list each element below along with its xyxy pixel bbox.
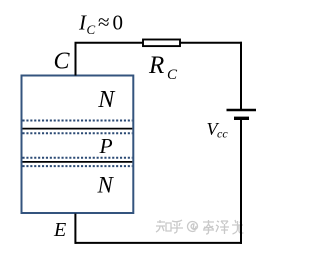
泽 — [216, 221, 229, 234]
wire right vertical lower — [240, 120, 242, 244]
svg-text:C: C — [54, 48, 71, 74]
watermark 知乎 @李泽光 — [156, 220, 244, 234]
svg-text:R: R — [148, 52, 164, 79]
wire emitter vertical — [74, 214, 76, 244]
depletion edge dotted line (C-B lower) — [23, 132, 133, 134]
svg-text:C: C — [167, 67, 178, 83]
svg-text:≈: ≈ — [98, 10, 110, 34]
svg-text:E: E — [53, 219, 66, 241]
svg-text:cc: cc — [217, 127, 228, 141]
wire right vertical upper — [240, 42, 242, 109]
depletion edge dotted line (B-E lower) — [23, 165, 133, 167]
@ — [188, 221, 198, 231]
battery short plate — [234, 117, 249, 120]
svg-text:0: 0 — [113, 11, 124, 35]
乎 — [171, 220, 183, 233]
depletion edge dotted line (B-E upper) — [23, 157, 133, 159]
wire top horizontal — [75, 42, 243, 44]
transistor structure box — [22, 76, 134, 214]
wire collector vertical — [75, 43, 77, 76]
depletion edge dotted line (C-B upper) — [23, 120, 133, 122]
李 — [203, 220, 214, 234]
wire bottom horizontal — [75, 242, 242, 244]
知 — [156, 220, 171, 232]
battery long plate — [227, 109, 257, 112]
resistor RC body — [143, 40, 180, 47]
B-E junction solid line — [23, 161, 133, 163]
光 — [232, 220, 244, 234]
svg-text:N: N — [97, 87, 116, 113]
svg-text:P: P — [99, 134, 113, 158]
svg-text:N: N — [97, 172, 115, 197]
C-B junction solid line — [23, 128, 133, 130]
svg-text:C: C — [87, 22, 96, 37]
